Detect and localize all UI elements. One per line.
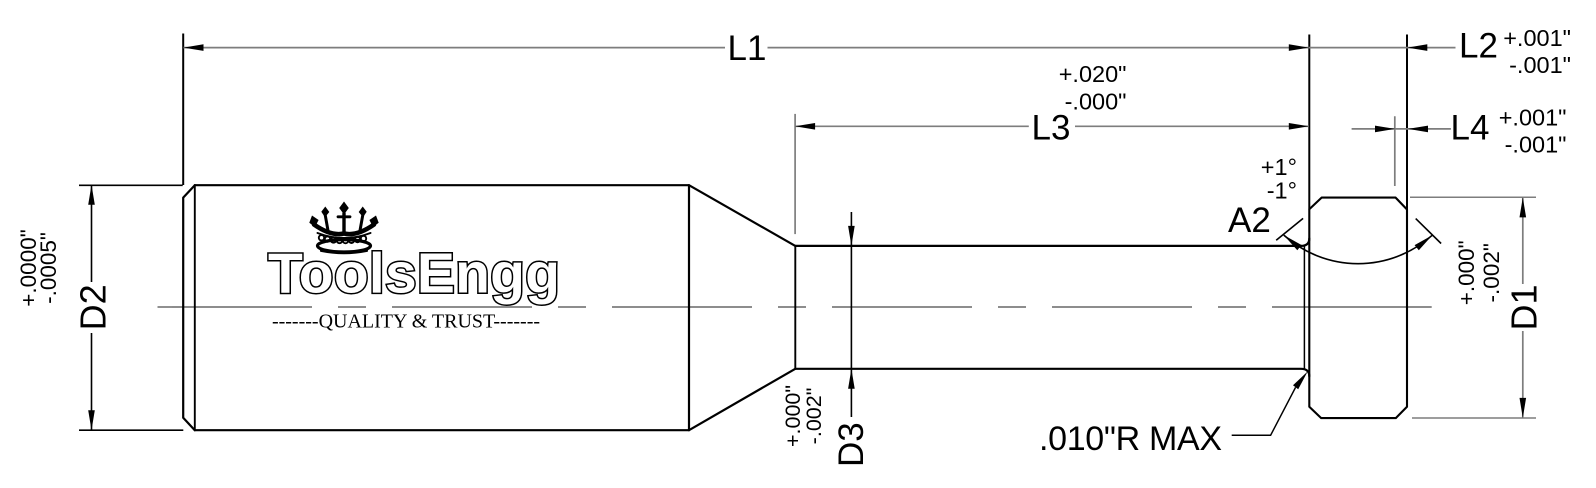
svg-text:-.002": -.002": [1479, 243, 1504, 302]
dimension line L3: [795, 125, 1309, 127]
svg-text:L4: L4: [1451, 109, 1490, 148]
arrow D1 top: [1520, 197, 1527, 217]
extension line L1 left: [182, 34, 184, 186]
svg-text:.010"R MAX: .010"R MAX: [1039, 420, 1222, 458]
extension line L4 left: [1394, 116, 1396, 186]
braze joint line: [1303, 247, 1305, 369]
body left face and chamfers: [183, 185, 195, 430]
arrow A2 right: [1415, 235, 1433, 250]
svg-text:-------QUALITY & TRUST-------: -------QUALITY & TRUST-------: [272, 311, 540, 333]
svg-text:-.000": -.000": [1065, 88, 1127, 114]
svg-text:+.001": +.001": [1503, 25, 1571, 51]
svg-text:L2: L2: [1459, 26, 1498, 65]
svg-text:-.001": -.001": [1505, 132, 1567, 158]
svg-text:+.001": +.001": [1499, 104, 1567, 130]
leader line .010R: [1232, 387, 1296, 435]
arrow L1 right: [1289, 44, 1309, 51]
svg-text:D3: D3: [832, 422, 871, 467]
svg-text:+.000": +.000": [1454, 240, 1479, 305]
arrow leader: [1293, 371, 1308, 389]
svg-text:L3: L3: [1032, 109, 1071, 148]
arrow D2 bottom: [88, 410, 95, 430]
arrow L1 left: [184, 44, 204, 51]
head outline: [1309, 198, 1407, 419]
arrow A2 left: [1284, 235, 1302, 250]
arrow D1 bottom: [1520, 398, 1527, 418]
svg-text:A2: A2: [1228, 201, 1271, 240]
svg-text:-.0005": -.0005": [36, 232, 61, 304]
body chamfer tangent line: [194, 185, 196, 430]
arrow L3 right: [1289, 123, 1309, 130]
arrow L4 left: [1375, 126, 1395, 133]
extension lines A2 chamfer projections: [1276, 218, 1303, 240]
arrow D3 top: [848, 226, 855, 246]
svg-text:L1: L1: [728, 29, 767, 68]
shank outline: [794, 246, 796, 369]
arrow L3 left: [795, 123, 815, 130]
svg-text:D2: D2: [73, 284, 114, 330]
arrow D3 bottom: [848, 369, 855, 389]
svg-text:-1°: -1°: [1267, 177, 1297, 203]
extension line head left face up: [1308, 35, 1310, 210]
svg-text:D1: D1: [1504, 284, 1545, 330]
dimension arc A2: [1284, 235, 1433, 264]
arrow D2 top: [88, 185, 95, 205]
taper cone lines: [689, 185, 795, 430]
svg-text:+1°: +1°: [1261, 154, 1297, 180]
logo crown: [314, 214, 374, 254]
dimension line D1: [1522, 197, 1524, 418]
svg-text:-.001": -.001": [1509, 52, 1571, 78]
extension line L3 left: [794, 114, 796, 234]
dimension line L1: [184, 47, 1309, 49]
extension lines D2: [79, 184, 183, 186]
body cylinder outline: [195, 185, 689, 430]
dimension line L4: [1352, 128, 1451, 130]
dimension line D3: [850, 212, 852, 417]
centerline: [158, 306, 173, 308]
svg-text:ToolsEngg: ToolsEngg: [268, 242, 560, 306]
extension lines D1: [1410, 196, 1536, 198]
extension line head right face up: [1406, 35, 1408, 210]
svg-text:-.002": -.002": [802, 388, 826, 445]
dimension line D2: [91, 185, 93, 430]
svg-text:+.020": +.020": [1059, 61, 1127, 87]
arrow L2 right: [1407, 44, 1427, 51]
dimension line L2: [1309, 47, 1456, 49]
arrow L4 right: [1408, 126, 1428, 133]
